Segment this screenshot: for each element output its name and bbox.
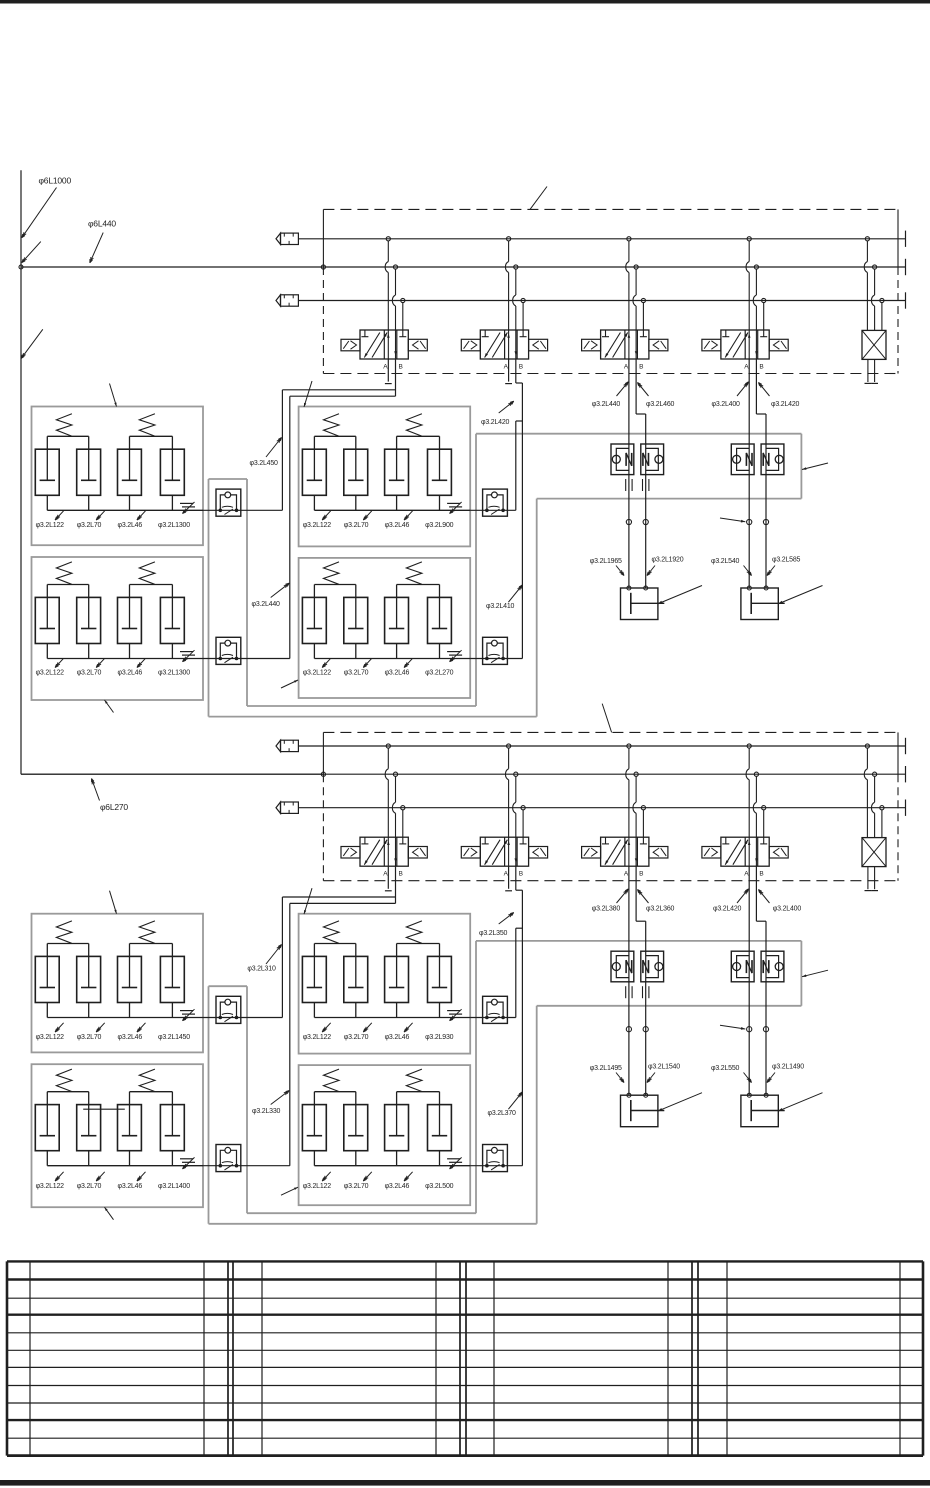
svg-text:φ3.2L1920: φ3.2L1920 bbox=[652, 557, 684, 564]
svg-text:B: B bbox=[519, 871, 523, 878]
svg-text:A: A bbox=[383, 871, 388, 878]
svg-text:A: A bbox=[624, 871, 629, 878]
svg-text:A: A bbox=[624, 364, 629, 371]
svg-text:φ3.2L122: φ3.2L122 bbox=[303, 522, 332, 529]
svg-text:φ3.2L70: φ3.2L70 bbox=[344, 670, 369, 677]
svg-text:φ3.2L310: φ3.2L310 bbox=[247, 966, 276, 973]
svg-text:φ3.2L46: φ3.2L46 bbox=[385, 1034, 410, 1041]
svg-text:B: B bbox=[399, 364, 403, 371]
svg-text:φ3.2L70: φ3.2L70 bbox=[344, 1183, 369, 1190]
svg-text:φ3.2L46: φ3.2L46 bbox=[118, 670, 143, 677]
svg-text:φ3.2L70: φ3.2L70 bbox=[77, 670, 102, 677]
svg-text:φ3.2L380: φ3.2L380 bbox=[592, 906, 621, 913]
svg-text:φ3.2L46: φ3.2L46 bbox=[385, 1183, 410, 1190]
svg-text:φ3.2L440: φ3.2L440 bbox=[252, 601, 281, 608]
svg-text:φ3.2L900: φ3.2L900 bbox=[425, 522, 454, 529]
svg-text:φ3.2L1300: φ3.2L1300 bbox=[158, 670, 190, 677]
svg-text:B: B bbox=[759, 364, 763, 371]
svg-text:B: B bbox=[639, 364, 643, 371]
svg-text:φ3.2L122: φ3.2L122 bbox=[36, 1183, 65, 1190]
svg-text:φ3.2L46: φ3.2L46 bbox=[118, 1183, 143, 1190]
svg-text:φ3.2L500: φ3.2L500 bbox=[425, 1183, 454, 1190]
svg-text:φ3.2L1300: φ3.2L1300 bbox=[158, 522, 190, 529]
svg-text:φ3.2L1490: φ3.2L1490 bbox=[772, 1064, 804, 1071]
svg-text:φ3.2L46: φ3.2L46 bbox=[118, 522, 143, 529]
svg-text:φ3.2L70: φ3.2L70 bbox=[77, 1183, 102, 1190]
svg-text:φ3.2L122: φ3.2L122 bbox=[36, 1034, 65, 1041]
svg-text:φ3.2L1450: φ3.2L1450 bbox=[158, 1034, 190, 1041]
svg-text:φ3.2L460: φ3.2L460 bbox=[646, 401, 675, 408]
svg-text:φ3.2L1495: φ3.2L1495 bbox=[590, 1065, 622, 1072]
svg-text:φ3.2L930: φ3.2L930 bbox=[425, 1034, 454, 1041]
svg-text:φ3.2L540: φ3.2L540 bbox=[711, 558, 740, 565]
svg-text:A: A bbox=[504, 364, 509, 371]
svg-text:φ3.2L360: φ3.2L360 bbox=[646, 906, 675, 913]
svg-text:φ3.2L450: φ3.2L450 bbox=[250, 460, 279, 467]
svg-text:φ3.2L122: φ3.2L122 bbox=[303, 1183, 332, 1190]
svg-text:φ3.2L46: φ3.2L46 bbox=[118, 1034, 143, 1041]
svg-text:φ3.2L410: φ3.2L410 bbox=[486, 603, 515, 610]
svg-text:φ3.2L122: φ3.2L122 bbox=[303, 670, 332, 677]
svg-text:φ3.2L585: φ3.2L585 bbox=[772, 557, 801, 564]
svg-text:φ3.2L46: φ3.2L46 bbox=[385, 522, 410, 529]
svg-text:φ3.2L46: φ3.2L46 bbox=[385, 670, 410, 677]
svg-text:B: B bbox=[399, 871, 403, 878]
svg-text:A: A bbox=[744, 871, 749, 878]
svg-text:φ6L1000: φ6L1000 bbox=[39, 176, 72, 186]
svg-text:φ6L270: φ6L270 bbox=[100, 802, 128, 812]
svg-text:φ3.2L400: φ3.2L400 bbox=[712, 401, 741, 408]
svg-text:φ3.2L70: φ3.2L70 bbox=[344, 1034, 369, 1041]
svg-text:B: B bbox=[759, 871, 763, 878]
svg-text:φ3.2L370: φ3.2L370 bbox=[488, 1110, 517, 1117]
svg-text:φ3.2L330: φ3.2L330 bbox=[252, 1108, 281, 1115]
svg-text:φ3.2L400: φ3.2L400 bbox=[773, 906, 802, 913]
svg-text:φ3.2L122: φ3.2L122 bbox=[36, 522, 65, 529]
svg-text:A: A bbox=[504, 871, 509, 878]
svg-text:A: A bbox=[383, 364, 388, 371]
svg-text:φ6L440: φ6L440 bbox=[88, 219, 116, 229]
svg-text:φ3.2L420: φ3.2L420 bbox=[713, 906, 742, 913]
svg-text:φ3.2L550: φ3.2L550 bbox=[711, 1065, 740, 1072]
svg-text:B: B bbox=[519, 364, 523, 371]
svg-text:φ3.2L1965: φ3.2L1965 bbox=[590, 558, 622, 565]
svg-text:A: A bbox=[744, 364, 749, 371]
svg-text:φ3.2L1400: φ3.2L1400 bbox=[158, 1183, 190, 1190]
svg-text:φ3.2L420: φ3.2L420 bbox=[481, 419, 510, 426]
svg-text:φ3.2L122: φ3.2L122 bbox=[303, 1034, 332, 1041]
svg-text:φ3.2L70: φ3.2L70 bbox=[77, 1034, 102, 1041]
svg-text:φ3.2L350: φ3.2L350 bbox=[479, 930, 508, 937]
svg-text:φ3.2L122: φ3.2L122 bbox=[36, 670, 65, 677]
svg-text:φ3.2L1540: φ3.2L1540 bbox=[648, 1064, 680, 1071]
svg-text:φ3.2L70: φ3.2L70 bbox=[77, 522, 102, 529]
svg-text:B: B bbox=[639, 871, 643, 878]
svg-text:φ3.2L70: φ3.2L70 bbox=[344, 522, 369, 529]
svg-text:φ3.2L270: φ3.2L270 bbox=[425, 670, 454, 677]
svg-text:φ3.2L420: φ3.2L420 bbox=[771, 401, 800, 408]
svg-text:φ3.2L440: φ3.2L440 bbox=[592, 401, 621, 408]
